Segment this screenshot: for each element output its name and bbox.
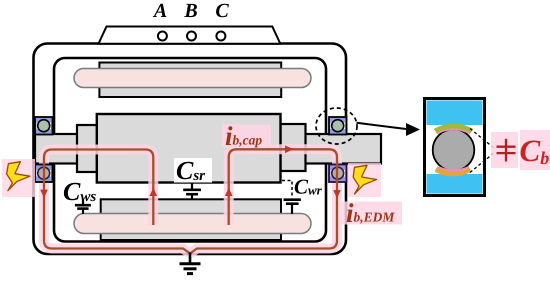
stator core top — [99, 63, 281, 98]
bearing upper-left — [35, 117, 53, 135]
bearing lower-right — [329, 165, 347, 183]
arrowhead down through left bearing — [40, 190, 48, 198]
detail outer race (top cyan) — [427, 101, 483, 126]
svg-text:A: A — [152, 0, 167, 22]
capacitor Cws — [75, 200, 91, 215]
label Csr on white box — [174, 158, 212, 183]
stator winding top — [74, 69, 311, 88]
arrowhead up on left vertical — [150, 188, 158, 196]
terminal circle B — [187, 32, 196, 41]
label i_b,cap — [222, 125, 271, 147]
lubricant film top — [436, 127, 472, 132]
ground symbol — [180, 253, 201, 274]
dashed ellipse around upper right bearing — [316, 108, 357, 144]
dashed pointer top film to cap — [470, 129, 495, 149]
shaft step left — [77, 125, 97, 172]
arrowhead right on i_b,cap line — [285, 146, 294, 154]
detail ball — [433, 129, 475, 171]
shaft — [35, 134, 381, 164]
label C_b — [520, 130, 550, 170]
bearing lower-left — [35, 165, 53, 183]
detail inner race (bottom cyan) — [427, 174, 483, 194]
dashed pointer bottom film to cap — [470, 153, 495, 173]
arrowhead up on right vertical — [225, 188, 233, 196]
outer housing frame — [34, 44, 347, 255]
current path right (wire) — [190, 149, 337, 253]
current path left (wire) — [44, 150, 190, 254]
stator core bottom — [101, 199, 281, 240]
terminal circle A — [158, 32, 167, 41]
arrowhead down through right bearing — [333, 190, 341, 198]
inner housing frame — [54, 58, 326, 242]
terminal circle C — [216, 32, 225, 41]
stator winding bottom — [74, 214, 311, 234]
lightning bolt right — [348, 163, 381, 197]
pointer line and arrow to detail view — [357, 123, 409, 129]
lightning bolt left — [2, 159, 35, 197]
capacitor Cwr with dashed lead — [282, 181, 292, 198]
halo of current paths — [44, 149, 337, 253]
bearing upper-right — [329, 117, 347, 135]
label i_b,EDM — [342, 202, 402, 225]
capacitor C_b symbol — [491, 132, 518, 168]
detail bearing rect — [425, 99, 485, 196]
capacitor Csr — [183, 184, 201, 200]
shaft step right — [281, 124, 306, 171]
svg-text:C: C — [215, 0, 229, 22]
lubricant film bottom — [436, 169, 470, 173]
svg-text:B: B — [183, 0, 197, 22]
terminal box trapezoid — [99, 27, 281, 44]
rotor — [97, 114, 281, 183]
